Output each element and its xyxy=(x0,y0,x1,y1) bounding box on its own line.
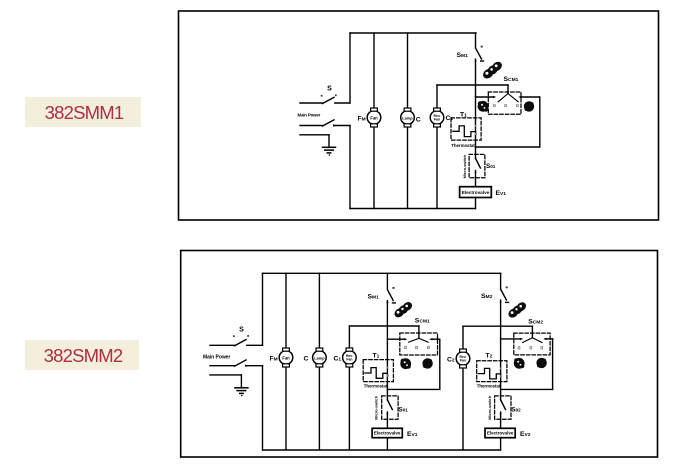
selector blades xyxy=(498,94,518,102)
rev fan 1 branch wires (d2) xyxy=(348,326,350,450)
svg-text:Thermostat: Thermostat xyxy=(477,384,501,389)
left bus wire lower (d2) xyxy=(262,366,264,450)
micro-switch S02 contact (d2) xyxy=(500,396,506,428)
svg-text:S: S xyxy=(327,86,332,93)
svg-text:SCM1: SCM1 xyxy=(504,76,519,83)
switch S pole 2 xyxy=(300,120,350,127)
svg-text:EV1: EV1 xyxy=(496,190,507,197)
top bus wire xyxy=(350,32,476,34)
model label 382SMM1 xyxy=(25,97,141,127)
fan motor FM branch wires (d2) xyxy=(285,273,287,450)
left bus wire lower xyxy=(349,126,351,209)
svg-text:SM2: SM2 xyxy=(481,293,493,300)
svg-text:Fan: Fan xyxy=(346,358,352,362)
svg-text:Electrovalve: Electrovalve xyxy=(487,431,514,436)
timer contact dots xyxy=(475,125,478,135)
electrovalve EV1 box (d2) xyxy=(372,428,402,437)
svg-text:Main Power: Main Power xyxy=(203,354,230,360)
selector 1 dashed box (d2) xyxy=(400,333,438,355)
svg-text:Fan: Fan xyxy=(282,355,290,360)
svg-text:Main Power: Main Power xyxy=(298,113,321,118)
fan motor FM branch wires xyxy=(373,33,375,209)
right return vertical 1 (d2) xyxy=(439,339,441,389)
electrovalve EV1 bottom wire xyxy=(475,198,477,209)
element blob left 2 (d2) xyxy=(514,358,525,369)
electrovalve EV1 bottom wire (d2) xyxy=(386,438,388,450)
svg-text:382SMM1: 382SMM1 xyxy=(45,102,124,123)
svg-text:Fan: Fan xyxy=(434,118,440,122)
micro-switch S01 contact xyxy=(474,154,480,186)
ground (d2) xyxy=(210,375,248,396)
diagram 2 frame xyxy=(181,251,658,458)
svg-text:S01: S01 xyxy=(399,407,409,414)
electrovalve EV2 box (d2) xyxy=(485,428,515,437)
svg-text:C: C xyxy=(416,117,421,124)
lamp C xyxy=(401,108,415,127)
svg-text:SM1: SM1 xyxy=(368,294,380,301)
selector 1 common wire (d2) xyxy=(418,326,420,338)
element blob left xyxy=(478,101,489,112)
selector 2 common wire (d2) xyxy=(531,326,533,338)
svg-text:S: S xyxy=(239,327,244,334)
selector 1 terminals (d2) xyxy=(405,346,430,348)
electrovalve EV2 bottom wire (d2) xyxy=(500,438,502,450)
svg-text:EV1: EV1 xyxy=(407,431,418,438)
left bus wire upper (d2) xyxy=(262,273,264,345)
micro-switch S01 dashed box (d2) xyxy=(382,396,398,419)
timer contact dots (d2 T2) xyxy=(500,367,502,377)
switch SM1 (d2) xyxy=(386,273,395,396)
svg-text:SM1: SM1 xyxy=(457,52,469,59)
timer T2 waveform (d2) xyxy=(478,368,500,379)
switch S pole 2 (d2) xyxy=(210,360,263,367)
timer T1 dashed box xyxy=(451,118,481,140)
svg-text:Micro-switch: Micro-switch xyxy=(487,395,492,419)
bottom bus wire xyxy=(350,208,476,210)
right return horizontal 1 (d2) xyxy=(387,388,439,390)
wire to right throw 1 (d2) xyxy=(429,338,440,340)
svg-text:SCM1: SCM1 xyxy=(415,318,430,325)
switch S pole 1 (d2) xyxy=(210,335,263,346)
wire node to selector xyxy=(437,84,508,86)
right return wire horizontal xyxy=(476,146,540,148)
rev fan motor 2 (d2) xyxy=(456,349,470,368)
svg-text:Micro-switch: Micro-switch xyxy=(462,154,467,178)
coil SCM1 (d2) xyxy=(393,300,414,319)
fan motor FM xyxy=(367,108,381,127)
wire to right throw xyxy=(518,96,540,98)
right return horizontal 2 (d2) xyxy=(501,388,553,390)
selector switch dashed box xyxy=(488,92,521,114)
timer T1 dashed box (d2) xyxy=(363,360,393,382)
svg-text:S02: S02 xyxy=(511,407,521,414)
micro-switch S02 dashed box (d2) xyxy=(495,396,511,419)
wire to right throw 2 (d2) xyxy=(543,338,552,340)
svg-text:FM: FM xyxy=(270,356,278,363)
module 1 feed wire (d2) xyxy=(349,325,419,327)
element blob right 2 (d2) xyxy=(536,358,546,368)
svg-text:Lamp: Lamp xyxy=(314,355,325,360)
micro-switch S01 contact (d2) xyxy=(386,396,392,428)
svg-text:Electrovalve: Electrovalve xyxy=(462,190,490,195)
svg-text:Fan: Fan xyxy=(370,115,378,120)
svg-text:SCM2: SCM2 xyxy=(528,319,543,326)
selector 2 terminals (d2) xyxy=(518,347,543,349)
rev fan branch wires xyxy=(436,85,438,209)
svg-text:FM: FM xyxy=(358,116,366,123)
selector common wire xyxy=(507,85,509,94)
timer T1 waveform xyxy=(453,126,476,137)
diagram 1 frame xyxy=(179,11,659,220)
svg-text:Micro-switch: Micro-switch xyxy=(374,395,379,419)
svg-text:Lamp: Lamp xyxy=(402,115,413,120)
switch SM1 xyxy=(474,33,483,154)
svg-text:C: C xyxy=(304,356,309,363)
right return wire vertical xyxy=(539,97,541,147)
micro-switch S01 dashed box xyxy=(469,154,485,177)
timer T2 dashed box (d2) xyxy=(477,361,507,382)
element blob left 1 (d2) xyxy=(400,358,411,369)
timer contact dots (d2 T1) xyxy=(387,367,389,377)
coil SCM1 xyxy=(481,60,504,81)
svg-text:EV2: EV2 xyxy=(520,431,531,438)
svg-text:Thermostat: Thermostat xyxy=(451,143,475,148)
svg-text:C2: C2 xyxy=(447,357,455,364)
svg-text:C1: C1 xyxy=(334,356,342,363)
lamp C (d2) xyxy=(313,348,327,367)
top bus wire (d2) xyxy=(263,272,501,274)
left bus wire upper xyxy=(349,33,351,103)
selector 2 blades (d2) xyxy=(523,338,542,343)
element blob right xyxy=(524,101,534,111)
fan motor FM (d2) xyxy=(279,348,293,367)
element blob right 1 (d2) xyxy=(422,358,432,368)
rev fan 2 branch wires (d2) xyxy=(462,326,464,450)
rev fan motor 1 (d2) xyxy=(343,348,357,367)
wire to left throw 2 (d2) xyxy=(501,338,524,340)
svg-text:Fan: Fan xyxy=(460,359,466,363)
lamp branch wires xyxy=(407,33,409,209)
wire to left throw xyxy=(476,96,497,98)
switch SM2 (d2) xyxy=(500,273,509,396)
svg-text:S01: S01 xyxy=(486,163,496,170)
wire to left throw 1 (d2) xyxy=(387,338,407,340)
model label 382SMM2 xyxy=(25,340,139,370)
svg-text:Thermostat: Thermostat xyxy=(364,383,388,388)
coil SCM2 (d2) xyxy=(507,300,528,319)
module 2 feed wire (d2) xyxy=(463,325,532,327)
svg-text:Electrovalve: Electrovalve xyxy=(374,431,401,436)
svg-text:T2: T2 xyxy=(486,353,493,360)
lamp branch wires (d2) xyxy=(318,273,320,450)
timer T1 waveform (d2) xyxy=(365,368,388,379)
right return vertical 2 (d2) xyxy=(552,339,554,390)
svg-text:T1: T1 xyxy=(373,353,380,360)
electrovalve EV1 box xyxy=(460,187,492,198)
bottom bus wire (d2) xyxy=(263,449,501,451)
svg-text:382SMM2: 382SMM2 xyxy=(44,345,123,366)
rev fan motor xyxy=(430,108,444,127)
switch S pole 1 xyxy=(300,94,350,103)
selector 1 blades (d2) xyxy=(409,338,429,342)
selector 2 dashed box (d2) xyxy=(514,333,550,355)
selector terminals xyxy=(493,105,518,107)
ground xyxy=(300,135,336,156)
